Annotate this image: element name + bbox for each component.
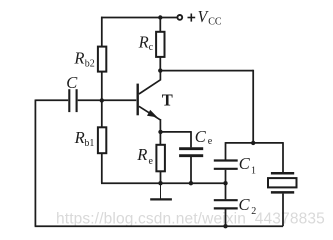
crystal XT xyxy=(268,173,297,192)
wire Ce top lead xyxy=(190,131,192,147)
wire Re bottom lead xyxy=(160,171,162,183)
wire C1-crystal rail xyxy=(226,142,284,144)
wire top rail xyxy=(101,17,177,19)
capacitor Ce plates xyxy=(179,149,203,156)
transistor emitter arrow xyxy=(147,110,158,118)
wire C2 bottom lead xyxy=(225,209,227,226)
node right branch junction xyxy=(251,141,255,145)
node collector junction xyxy=(158,68,162,72)
svg-text:R: R xyxy=(136,145,147,164)
svg-text:1: 1 xyxy=(251,166,256,177)
node Ce bottom junction xyxy=(189,181,193,185)
wire emitter-Ce rail xyxy=(161,131,192,133)
wire Rb2 top lead xyxy=(101,17,103,47)
node C1-C2 junction xyxy=(223,181,227,185)
node top Rc junction xyxy=(158,15,162,19)
label +Vcc xyxy=(188,14,196,22)
capacitor C2 plates xyxy=(214,200,238,208)
resistor Rb1 xyxy=(98,127,106,153)
wire right vertical xyxy=(252,70,254,143)
svg-text:C: C xyxy=(66,73,78,92)
wire crystal bottom lead xyxy=(282,194,284,227)
wire collector rail xyxy=(160,70,253,72)
svg-text:b1: b1 xyxy=(84,138,94,149)
wire Rc top lead xyxy=(159,17,161,32)
svg-text:e: e xyxy=(208,136,213,147)
wire C1-C2 link xyxy=(225,170,227,200)
capacitor C plates xyxy=(69,89,76,112)
wire base right xyxy=(78,99,137,101)
svg-text:2: 2 xyxy=(251,206,256,217)
node Re bottom junction xyxy=(158,181,162,185)
wire bottom rail xyxy=(35,225,283,227)
svg-text:R: R xyxy=(138,32,149,51)
svg-text:CC: CC xyxy=(208,17,222,28)
wire Rb1 bottom lead xyxy=(101,153,103,183)
svg-text:c: c xyxy=(149,42,154,53)
resistor Rb2 xyxy=(98,47,106,72)
node emitter junction xyxy=(158,130,162,134)
wire Ce bottom lead xyxy=(190,157,192,183)
wire Re top lead xyxy=(159,130,161,145)
svg-text:T: T xyxy=(162,91,173,110)
wire middle rail xyxy=(101,182,225,184)
wire C1 top lead xyxy=(225,142,227,160)
svg-text:C: C xyxy=(239,195,251,214)
terminal +Vcc xyxy=(177,15,182,20)
node base junction xyxy=(100,98,104,102)
svg-text:C: C xyxy=(195,127,207,146)
wire crystal top lead xyxy=(282,142,284,172)
svg-text:R: R xyxy=(74,128,85,147)
wire Rc bottom lead xyxy=(159,57,161,71)
svg-text:C: C xyxy=(239,154,251,173)
svg-text:e: e xyxy=(149,156,154,167)
svg-text:R: R xyxy=(73,49,84,68)
svg-text:b2: b2 xyxy=(85,59,95,70)
resistor Re xyxy=(156,145,165,172)
capacitor C1 plates xyxy=(214,161,238,169)
wire base left xyxy=(35,99,68,101)
wire left vertical xyxy=(34,100,36,227)
node C2 bottom junction xyxy=(223,224,227,228)
wire Rb2-Rb1 link xyxy=(101,71,103,127)
transistor T xyxy=(138,71,161,132)
resistor Rc xyxy=(156,32,164,57)
svg-text:https://blog.csdn.net/weixin_4: https://blog.csdn.net/weixin_44378835 xyxy=(56,210,325,227)
ground xyxy=(150,183,172,199)
